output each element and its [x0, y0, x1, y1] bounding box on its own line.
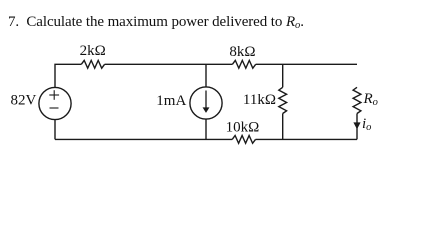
- io current arrow: [353, 122, 360, 129]
- resistor 2kΩ: [81, 60, 104, 68]
- wire 11k branch bottom stub: [282, 114, 284, 140]
- current source arrow: [203, 91, 210, 113]
- wire current source bottom stub: [205, 119, 207, 139]
- wire current source top stub: [205, 64, 207, 87]
- svg-text:8kΩ: 8kΩ: [229, 44, 255, 60]
- voltage source minus sign: [50, 107, 59, 109]
- wire top rail: 8k to Ro corner: [256, 63, 357, 65]
- voltage source U1 82V: [39, 87, 71, 119]
- current source I1 1mA: [190, 87, 222, 119]
- wire top rail: 2k to 8k: [105, 63, 233, 65]
- svg-text:10kΩ: 10kΩ: [226, 120, 260, 136]
- svg-text:Ro: Ro: [363, 91, 378, 108]
- svg-text:2kΩ: 2kΩ: [80, 43, 106, 59]
- wire left branch bottom: [54, 120, 56, 140]
- resistor 8kΩ: [232, 60, 255, 68]
- svg-text:82V: 82V: [10, 92, 36, 108]
- wire bottom rail: left to 10k: [55, 138, 232, 140]
- wire Ro branch bottom stub: [356, 114, 358, 140]
- wire 11k branch top stub: [282, 64, 284, 87]
- svg-text:7. Calculate the maximum powe: 7. Calculate the maximum power delivered…: [8, 14, 304, 31]
- resistor Ro: [353, 87, 361, 113]
- resistor 11kΩ: [279, 87, 287, 113]
- resistor 10kΩ: [232, 136, 255, 144]
- svg-text:1mA: 1mA: [156, 93, 186, 109]
- wire bottom rail: 10k to Ro corner: [256, 138, 358, 140]
- svg-text:11kΩ: 11kΩ: [243, 92, 276, 108]
- wire top rail: source corner to 2k: [55, 64, 81, 87]
- voltage source plus sign: [49, 90, 59, 100]
- svg-text:io: io: [362, 116, 371, 133]
